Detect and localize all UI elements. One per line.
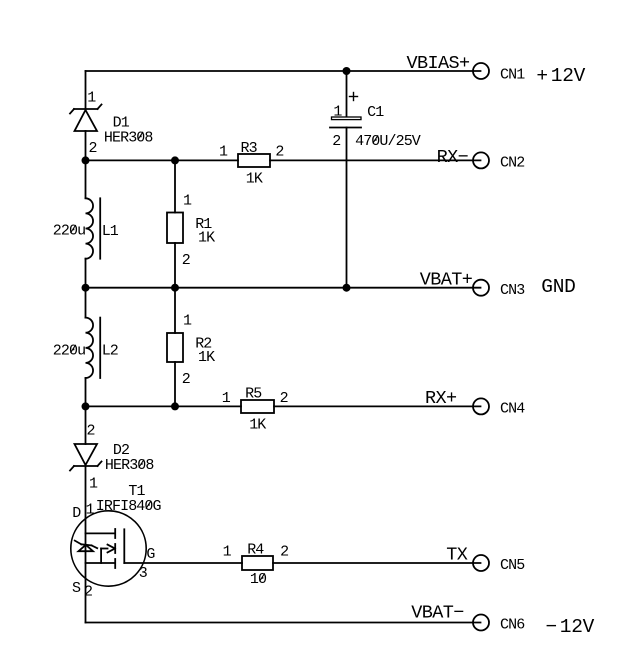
svg-text:1: 1 [222,390,231,407]
resistor R2 [167,333,183,362]
wire left bus upper [85,71,87,109]
junction RX+ left [82,402,90,410]
svg-text:G: G [146,546,155,563]
junction RX- left [82,156,90,164]
svg-text:3: 3 [139,565,148,582]
junction VBAT+ R2 [171,284,179,292]
wire R2 branch top [174,288,176,333]
svg-text:HER308: HER308 [104,129,154,146]
wire RX+ line right segment [274,405,481,407]
svg-text:GND: GND [541,276,575,298]
svg-text:470U/25V: 470U/25V [355,133,421,150]
wire D2 through transistor down to bottom rail [85,466,87,623]
wire VBAT+ line [86,287,481,289]
junction VBAT+ C1 [343,284,351,292]
wire C1 branch top [346,71,348,117]
wire D1 to RX- junction and to L1 [85,131,87,198]
wire VBAT+ junction to L2 [85,288,87,318]
svg-text:1: 1 [87,89,96,106]
svg-text:1: 1 [223,543,232,560]
wire bottom rail VBAT- [86,622,481,624]
resistor R4 [242,556,273,570]
svg-text:C1: C1 [367,104,384,121]
resistor R5 [241,400,274,413]
wire top rail VBIAS+ [86,70,481,72]
svg-text:2: 2 [280,390,288,407]
wire TX gate line left segment [124,562,242,564]
svg-text:−12V: −12V [546,616,595,638]
svg-text:CN3: CN3 [500,282,525,299]
wire L2 to RX+ junction [85,378,87,406]
svg-text:CN5: CN5 [500,557,525,574]
wire TX line right segment [273,562,481,564]
svg-text:2: 2 [182,371,190,388]
svg-text:VBIAS+: VBIAS+ [407,53,471,74]
svg-text:2: 2 [84,584,92,601]
svg-text:L1: L1 [102,223,119,240]
svg-text:IRFI840G: IRFI840G [96,498,162,515]
svg-text:220u: 220u [53,223,85,240]
transistor T1 MOSFET [71,511,146,586]
svg-text:R3: R3 [241,140,258,157]
svg-text:1: 1 [183,312,192,329]
svg-text:R5: R5 [245,386,262,403]
wire L1 to VBAT+ junction [85,259,87,288]
svg-text:R4: R4 [247,541,264,558]
diode D1 [70,105,102,132]
slash of zero in 10 R4 [260,573,265,581]
svg-text:S: S [72,580,81,597]
svg-text:CN4: CN4 [500,401,525,418]
svg-text:1K: 1K [198,349,215,366]
svg-text:CN2: CN2 [500,154,524,171]
svg-text:1: 1 [219,144,228,161]
svg-text:RX+: RX+ [425,388,457,409]
wire C1 branch bottom [346,128,348,288]
svg-text:1K: 1K [249,416,266,433]
svg-text:1: 1 [89,475,98,492]
inductor L1 [86,198,101,258]
svg-text:2: 2 [280,543,288,560]
slash of zero in 220u L2 [71,345,76,353]
wire RX+ line left segment [86,405,242,407]
slash of zero in 470U/25V C1 [373,135,378,143]
slash of zero in HER308 D2 [139,460,144,468]
slash of zero in IRFI840G T1 [146,501,151,509]
wire R1 branch top [174,160,176,212]
resistor R3 [238,154,270,167]
wire RX+ junction to D2 [85,406,87,444]
junction VBAT+ left [82,284,90,292]
svg-text:1K: 1K [198,229,215,246]
terminal CN5 [473,555,489,571]
svg-text:D: D [72,505,81,522]
terminal CN3 [473,280,489,296]
diode D2 [70,444,102,471]
svg-text:2: 2 [89,140,97,157]
svg-text:CN6: CN6 [500,617,525,634]
svg-text:2: 2 [332,133,340,150]
junction RX- R1 [171,156,179,164]
junction RX+ R2 [171,402,179,410]
inductor L2 [86,318,101,378]
slash of zero in HER308 D1 [138,132,143,140]
terminal CN4 [473,398,489,414]
junction C1 top rail [343,67,351,75]
svg-text:2: 2 [87,423,95,440]
wire RX- line left segment [86,159,239,161]
wire R1 branch bottom [174,243,176,288]
svg-text:L2: L2 [102,342,118,359]
svg-text:CN1: CN1 [500,66,525,83]
svg-text:TX: TX [446,545,468,566]
svg-text:2: 2 [275,144,283,161]
svg-text:VBAT+: VBAT+ [420,269,473,290]
wire R2 branch bottom [174,362,176,406]
svg-text:VBAT−: VBAT− [411,603,464,624]
resistor R1 [167,213,183,244]
capacitor C1 [330,93,361,128]
svg-text:RX−: RX− [437,147,469,168]
terminal CN6 [473,615,489,631]
svg-text:1K: 1K [246,170,263,187]
svg-text:2: 2 [182,252,190,269]
svg-text:HER308: HER308 [105,457,155,474]
svg-text:220u: 220u [53,342,85,359]
svg-text:+12V: +12V [536,65,585,87]
wire RX- line right segment [270,159,481,161]
terminal CN2 [473,152,489,168]
terminal CN1 [473,63,489,79]
slash of zero in 220u L1 [71,225,76,233]
svg-text:1: 1 [86,502,95,519]
svg-text:1: 1 [333,103,342,120]
svg-text:1: 1 [183,193,192,210]
